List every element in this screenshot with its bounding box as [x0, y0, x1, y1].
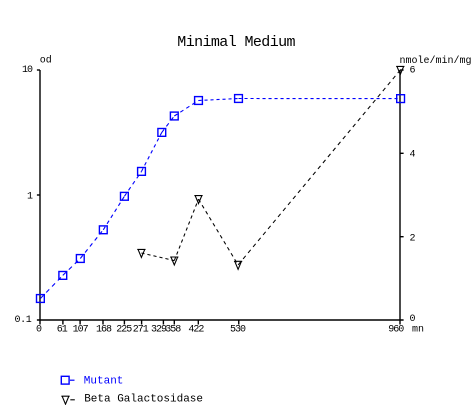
svg-text:107: 107: [73, 325, 89, 336]
svg-text:168: 168: [96, 325, 112, 336]
svg-text:422: 422: [188, 325, 204, 336]
svg-text:530: 530: [230, 325, 246, 336]
svg-text:Mutant: Mutant: [84, 376, 124, 388]
svg-text:271: 271: [133, 325, 149, 336]
svg-text:Beta Galactosidase: Beta Galactosidase: [84, 393, 203, 405]
svg-text:od: od: [40, 54, 52, 66]
svg-text:mn: mn: [412, 325, 424, 336]
svg-text:Minimal Medium: Minimal Medium: [177, 34, 295, 51]
svg-text:960: 960: [388, 325, 404, 336]
svg-text:358: 358: [165, 325, 181, 336]
svg-text:225: 225: [116, 325, 132, 336]
svg-text:61: 61: [57, 325, 68, 336]
svg-text:0.1: 0.1: [14, 315, 31, 326]
svg-text:10: 10: [22, 65, 33, 76]
